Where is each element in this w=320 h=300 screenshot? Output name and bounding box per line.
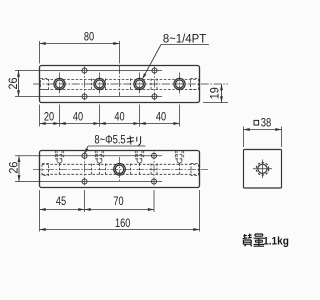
svg-text:8~Φ5.5: 8~Φ5.5 <box>94 134 125 147</box>
svg-text:19: 19 <box>209 87 222 99</box>
svg-text:80: 80 <box>84 32 94 44</box>
svg-text:8~1/4PT: 8~1/4PT <box>163 32 206 45</box>
svg-text:20: 20 <box>44 111 54 123</box>
svg-text:70: 70 <box>113 196 123 208</box>
svg-text:26: 26 <box>8 162 21 174</box>
svg-text:160: 160 <box>115 218 131 230</box>
svg-text:45: 45 <box>56 196 66 208</box>
svg-text:26: 26 <box>8 77 21 89</box>
svg-text:40: 40 <box>156 111 166 123</box>
svg-text:1.1kg: 1.1kg <box>263 235 289 247</box>
svg-text:40: 40 <box>73 111 83 123</box>
svg-text:40: 40 <box>114 111 124 123</box>
svg-text:38: 38 <box>261 117 272 130</box>
